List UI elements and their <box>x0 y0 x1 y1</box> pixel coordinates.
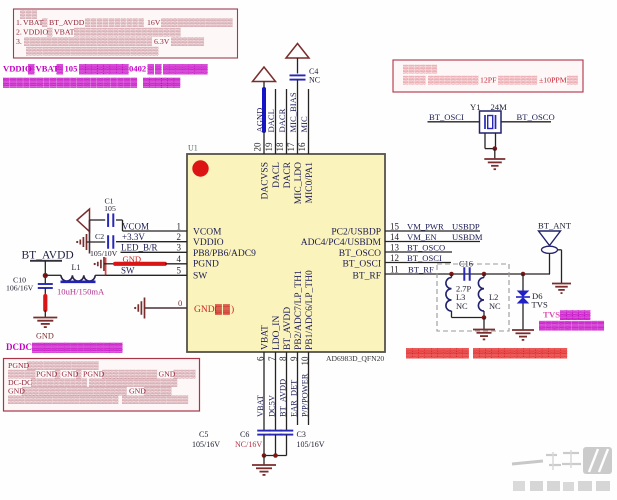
svg-text:14: 14 <box>390 232 400 242</box>
pin label VM_PWR <box>407 221 444 231</box>
svg-text:PB2/ADC7/LP_TH1: PB2/ADC7/LP_TH1 <box>294 270 304 350</box>
red highlight vertical at ground bar <box>105 258 107 276</box>
svg-text:TVS: TVS <box>543 310 560 320</box>
pin number 20 <box>253 142 263 152</box>
wires capacitors down to junction <box>264 435 287 456</box>
svg-text:C16: C16 <box>459 260 473 269</box>
svg-text:105: 105 <box>65 64 78 74</box>
ground below C10 <box>33 318 57 328</box>
svg-text:C3: C3 <box>297 430 306 439</box>
wire pin 3 LED_B/R <box>121 251 188 253</box>
svg-text:): ) <box>231 304 234 315</box>
svg-text:BT_AVDD: BT_AVDD <box>283 307 293 350</box>
svg-text:2.: 2. <box>16 28 22 37</box>
net label BT_RF <box>408 264 434 274</box>
wire antenna stub to ground <box>558 250 562 283</box>
IC U1 AD6983D_QFN20 body <box>187 144 385 353</box>
svg-text:16: 16 <box>297 142 307 152</box>
svg-text:BT_OSCI: BT_OSCI <box>407 253 442 263</box>
net label BT_OSCI <box>429 112 464 122</box>
svg-text:DCDC: DCDC <box>6 342 32 352</box>
svg-text:MIC_BIAS: MIC_BIAS <box>288 92 298 132</box>
substrate pad label GND(chenDi) <box>194 304 234 315</box>
net label GND (red) <box>123 254 142 264</box>
svg-text:AD6983D_QFN20: AD6983D_QFN20 <box>326 354 384 363</box>
svg-text:0: 0 <box>178 298 182 308</box>
svg-text:▓▓▓▓▓▓▓▓▓▓▓▓▓▓▓: ▓▓▓▓▓▓▓▓▓▓▓▓▓▓▓ <box>473 348 568 359</box>
svg-text:3: 3 <box>177 243 182 253</box>
svg-text:105/10V: 105/10V <box>90 249 118 258</box>
pin number 13 <box>390 242 400 252</box>
wire pin 5 SW <box>106 274 187 276</box>
PGND routing requirement box <box>4 359 200 412</box>
svg-text:8: 8 <box>278 356 288 361</box>
capacitor C5 105/16V <box>257 431 271 435</box>
svg-text:NC: NC <box>309 76 320 85</box>
svg-text:BT_OSCO: BT_OSCO <box>339 249 381 259</box>
svg-text:DACR: DACR <box>277 108 287 132</box>
IC pin name DACR <box>283 161 293 188</box>
wire BT_OSCI to crystal <box>428 121 480 123</box>
label C16 <box>459 260 473 269</box>
label C10 106/16V <box>6 276 34 293</box>
svg-text:C6: C6 <box>240 430 249 439</box>
pin number 1 <box>177 222 182 232</box>
net label P/P/POWER <box>301 373 310 417</box>
net label USBDP <box>452 221 480 231</box>
wire pin 9 stub EAR_DET <box>297 352 299 425</box>
inductor L3 (NC) <box>446 274 452 318</box>
svg-text:13: 13 <box>390 242 400 252</box>
wire pin 0 substrate ground <box>145 307 187 309</box>
wire pin 14 VM_EN <box>385 241 480 243</box>
svg-text:MIC: MIC <box>299 116 309 133</box>
svg-text:C5: C5 <box>199 430 208 439</box>
IC pin name VDDIO <box>193 238 224 248</box>
svg-text:L3: L3 <box>456 293 465 302</box>
wire pin 15 VM_PWR <box>385 230 480 232</box>
svg-text:BT_OSCI: BT_OSCI <box>342 260 381 270</box>
svg-text:L1: L1 <box>72 263 81 272</box>
svg-text:ADC4/PC4/USBDM: ADC4/PC4/USBDM <box>301 238 382 248</box>
svg-text:11: 11 <box>390 264 399 274</box>
junction node C5 <box>262 453 267 458</box>
net label DACR <box>277 108 287 132</box>
wire pin 8 down to capacitor <box>286 352 288 431</box>
value label 105/10V <box>90 249 118 258</box>
label L2 NC <box>489 293 501 311</box>
IC pin name ADC4/PC4/USBDM <box>301 238 382 248</box>
svg-text:▒: ▒ <box>42 18 48 27</box>
svg-text:105/16V: 105/16V <box>192 440 220 449</box>
svg-text:USBDP: USBDP <box>452 221 480 231</box>
pin number 15 <box>390 221 400 231</box>
svg-text:9: 9 <box>289 356 299 361</box>
label C1 105 <box>104 197 116 214</box>
rotated ground for PGND pin 4 <box>94 257 104 271</box>
ground below decoupling caps <box>252 465 276 475</box>
svg-text:C2: C2 <box>95 232 104 241</box>
svg-text:▓▓▓▓▓▓: ▓▓▓▓▓▓ <box>143 77 181 88</box>
svg-text:VCOM: VCOM <box>122 222 149 232</box>
wire arrow to C1 <box>90 219 106 221</box>
wire to D6 <box>522 274 524 291</box>
svg-text:106/16V: 106/16V <box>6 284 34 293</box>
net label BT_OSCO <box>407 242 445 252</box>
pin number 10 <box>300 356 310 366</box>
capacitor C1 105 <box>108 213 113 227</box>
wire ground to GND highlight <box>104 263 114 265</box>
antenna BT_ANT symbol <box>539 231 561 253</box>
net label MIC <box>299 116 309 133</box>
label Y1 24M <box>470 102 507 112</box>
red note: antenna matching params <box>406 348 568 359</box>
wire pin 10 stub P/P/POWER <box>308 352 310 425</box>
svg-text:VBAT: VBAT <box>54 28 75 37</box>
wire pin 18 DACR <box>286 89 288 154</box>
svg-text:DACR: DACR <box>283 161 293 188</box>
net label AGND <box>255 108 265 133</box>
IC pin name MIC_LDO <box>294 162 304 204</box>
wire pin20 AGND into IC <box>263 131 265 154</box>
svg-text:NC/16V: NC/16V <box>235 440 262 449</box>
TVS diode D6 (bidirectional) <box>516 291 530 304</box>
svg-text:▒▒▒▒: ▒▒▒▒ <box>403 76 426 85</box>
IC pin name VBAT <box>261 325 271 350</box>
thick red highlighted GND wire pin 4 <box>115 262 165 266</box>
value 2.7P <box>456 285 471 294</box>
IC part number AD6983D_QFN20 <box>326 354 384 363</box>
wire arrow to C4 <box>297 58 299 74</box>
svg-text:BT_OSCO: BT_OSCO <box>517 112 555 122</box>
IC pin name SW <box>193 272 207 282</box>
svg-text:▒▒: ▒▒ <box>567 76 579 85</box>
crystal Y1 box <box>480 111 502 133</box>
svg-text:20: 20 <box>253 142 263 152</box>
pin 17 power arrow MIC_BIAS <box>286 44 309 59</box>
svg-text:▓: ▓ <box>57 64 64 75</box>
ground below matching network <box>473 330 495 340</box>
net label BT_OSCO <box>517 112 555 122</box>
wire pin20 to arrow <box>263 82 265 90</box>
svg-text:12PF: 12PF <box>480 76 497 85</box>
pin number 4 <box>177 254 182 264</box>
net label DC5V <box>268 395 277 417</box>
svg-text:▒▒▒▒▒▒▒▒▒: ▒▒▒▒▒▒▒▒▒ <box>428 76 479 85</box>
net label USBDM <box>452 232 483 242</box>
svg-text:GND: GND <box>123 254 142 264</box>
svg-text:▓▓▓▓▓▓▓▓▓▓▓▓▓▓▓▓▓▓▓▓: ▓▓▓▓▓▓▓▓▓▓▓▓▓▓▓▓▓▓▓▓ <box>3 77 138 88</box>
label C3 105/16V <box>297 430 325 449</box>
wire C2 to pin 2 <box>116 241 187 243</box>
capacitor C16 2.7P (series) <box>464 267 469 281</box>
wire C4 to pin 17 <box>297 80 299 154</box>
svg-text:4: 4 <box>177 254 182 264</box>
svg-text:VBAT: VBAT <box>36 64 60 74</box>
junction node L3 tap <box>449 272 454 277</box>
net label BT_AVDD (large) <box>22 250 74 262</box>
svg-text:105/16V: 105/16V <box>297 440 325 449</box>
svg-text:VDDIO: VDDIO <box>193 238 224 248</box>
matching network dashed outline <box>437 264 509 331</box>
svg-text:LED_B/R: LED_B/R <box>121 243 158 253</box>
rotated ground for substrate pin 0 <box>134 298 144 319</box>
IC pin name PC2/USBDP <box>331 228 381 238</box>
pin number 16 <box>297 142 307 152</box>
svg-text:10uH/150mA: 10uH/150mA <box>57 287 105 297</box>
pin number 18 <box>275 142 285 152</box>
svg-text:▒▒▒▒▒▒: ▒▒▒▒▒▒ <box>403 65 438 74</box>
capacitor C3 105/16V <box>280 431 294 435</box>
label GND <box>36 332 54 341</box>
IC pin name PGND <box>193 260 219 270</box>
label C6 NC/16V (red) <box>235 430 262 449</box>
IC pin name DACVSS <box>261 162 271 200</box>
svg-text:▒▒▒▒▒▒▒▒▒▒▒▒▒: ▒▒▒▒▒▒▒▒▒▒▒▒▒ <box>161 18 233 27</box>
wire to ground <box>44 310 46 317</box>
label BT_ANT <box>538 221 572 231</box>
svg-text:PC2/USBDP: PC2/USBDP <box>331 228 381 238</box>
pin 1 marker dot <box>192 160 208 176</box>
svg-text:6: 6 <box>255 356 265 361</box>
label C5 105/16V <box>192 430 220 449</box>
IC pin name LDO_IN <box>272 316 282 350</box>
svg-text:▓▓: ▓▓ <box>215 304 231 315</box>
svg-text:VBAT: VBAT <box>256 395 265 417</box>
svg-text:▓: ▓ <box>28 64 35 75</box>
wire pin 13 BT_OSCO <box>385 251 452 253</box>
IC pin name VCOM <box>193 228 222 238</box>
pin number 0 <box>178 298 182 308</box>
wire pin 7 down to capacitor <box>275 352 277 431</box>
svg-text:2: 2 <box>177 232 182 242</box>
IC pin name BT_RF <box>352 272 381 282</box>
wire BT_AVDD down to junction <box>44 261 46 284</box>
svg-text:▒▒▒▒▒▒▒▒▒▒: ▒▒▒▒▒▒▒▒▒▒ <box>85 18 144 27</box>
wire pin 12 BT_OSCI <box>385 262 451 264</box>
svg-text:DACL: DACL <box>266 109 276 132</box>
label C4 NC <box>309 67 320 85</box>
IC pin name PB8/PB6/ADC9 <box>193 249 256 259</box>
junction node crystal ground <box>493 146 498 151</box>
svg-text:SW: SW <box>121 266 135 276</box>
wire pin 6 down to capacitor <box>263 352 265 431</box>
svg-text:▒▒▒▒▒▒▒▒▒▒▒▒▒▒▒▒▒▒▒▒▒▒▒▒: ▒▒▒▒▒▒▒▒▒▒▒▒▒▒▒▒▒▒▒▒▒▒▒▒ <box>26 47 159 56</box>
svg-text:VBAT: VBAT <box>261 325 271 350</box>
label L1 <box>72 263 81 272</box>
svg-text:16V: 16V <box>147 18 161 27</box>
capacitor C6 NC/16V <box>269 431 283 435</box>
net label BT_OSCI <box>407 253 442 263</box>
wire junction to L1 <box>45 274 61 276</box>
IC pin name MIC0/PA1 <box>305 162 315 204</box>
pin number 12 <box>390 253 399 263</box>
pin number 14 <box>390 232 400 242</box>
svg-text:5: 5 <box>177 266 182 276</box>
junction node L2 tap <box>482 272 487 277</box>
svg-text:6.3V: 6.3V <box>154 37 170 46</box>
svg-text:AGND: AGND <box>255 108 265 133</box>
svg-text:▒▒▒▒▒▒: ▒▒▒▒▒▒ <box>171 37 205 46</box>
net label BT_AVDD <box>279 379 288 417</box>
wire down to ground <box>483 318 485 330</box>
pin number 19 <box>264 142 274 152</box>
svg-text:PB8/PB6/ADC9: PB8/PB6/ADC9 <box>193 249 256 259</box>
wire to crystal ground <box>494 149 496 159</box>
crystal selection note box <box>393 60 583 92</box>
junction node D6 tap <box>521 272 526 277</box>
net label EAR_DET <box>290 380 299 417</box>
svg-text:EAR_DET: EAR_DET <box>290 380 299 417</box>
svg-text:VCOM: VCOM <box>193 228 222 238</box>
svg-text:BT_OSCO: BT_OSCO <box>407 242 445 252</box>
pin number 17 <box>286 142 296 152</box>
junction wire below capacitors <box>264 455 287 457</box>
svg-text:18: 18 <box>275 142 285 152</box>
net label VCOM <box>122 222 149 232</box>
svg-text:L2: L2 <box>489 293 498 302</box>
IC pin name BT_OSCI <box>342 260 381 270</box>
capacitor C4 (NC) <box>290 75 306 79</box>
pin number 6 <box>255 356 265 361</box>
capacitor C10 106/16V <box>38 284 53 288</box>
svg-text:19: 19 <box>264 142 274 152</box>
IC pin name BT_OSCO <box>339 249 381 259</box>
wire D6 to ground <box>522 304 524 331</box>
pin number 5 <box>177 266 182 276</box>
label C2 <box>95 232 104 241</box>
net label VBAT <box>256 395 265 417</box>
svg-text:▓▓▓▓▓▓▓▓: ▓▓▓▓▓▓▓▓ <box>79 64 129 75</box>
svg-text:▓▓: ▓▓ <box>148 64 163 75</box>
svg-text:▒▒▒▒▒▒▒▒▒▒▒▒▒▒▒▒▒▒▒▒▒▒▒: ▒▒▒▒▒▒▒▒▒▒▒▒▒▒▒▒▒▒▒▒▒▒▒ <box>24 37 153 46</box>
pin number 9 <box>289 356 299 361</box>
svg-text:DACVSS: DACVSS <box>261 162 271 200</box>
svg-text:DACL: DACL <box>272 162 282 188</box>
svg-text:▒: ▒ <box>47 28 53 37</box>
junction node L2 bottom <box>482 315 487 320</box>
svg-text:DC5V: DC5V <box>268 395 277 417</box>
wire antenna to BT_RF rail <box>549 253 552 274</box>
svg-text:PB1/ADC6/LP_TH0: PB1/ADC6/LP_TH0 <box>305 270 315 350</box>
svg-text:BT_RF: BT_RF <box>408 264 434 274</box>
capacitor C2 105/10V <box>108 235 113 249</box>
svg-text:BT_AVDD: BT_AVDD <box>22 250 74 262</box>
AGND blue highlighted wire segment <box>262 89 266 131</box>
svg-text:▓▓▓▓▓▓▓: ▓▓▓▓▓▓▓ <box>163 64 208 75</box>
magenta note: VDDIO/VBAT 0402 filter caps <box>3 64 208 89</box>
svg-text:BT_OSCI: BT_OSCI <box>429 112 464 122</box>
svg-text:17: 17 <box>286 142 296 152</box>
svg-text:▓▓▓▓▓: ▓▓▓▓▓ <box>560 310 591 321</box>
ground below antenna <box>552 284 571 294</box>
junction node BT_AVDD/L1/C10 <box>43 273 48 278</box>
ground below crystal <box>484 159 505 169</box>
net label MIC_BIAS <box>288 92 298 132</box>
inductor L1 core bar (blue) <box>61 280 96 283</box>
svg-text:P/P/POWER: P/P/POWER <box>301 373 310 417</box>
svg-text:USBDM: USBDM <box>452 232 483 242</box>
svg-text:▓▓▓▓▓▓▓▓▓▓▓▓▓▓: ▓▓▓▓▓▓▓▓▓▓▓▓▓▓ <box>32 342 123 353</box>
wire crystal to BT_OSCO <box>501 121 551 123</box>
wire L3 bottom to L2 bottom <box>452 317 485 319</box>
wire into pin 1 VCOM <box>123 230 188 232</box>
net label +3.3V <box>122 232 145 242</box>
wire pin 11 BT_RF rail <box>385 273 550 275</box>
pin number 11 <box>390 264 399 274</box>
wire ground to C2 <box>87 241 106 243</box>
svg-text:12: 12 <box>390 253 399 263</box>
IC pin name DACL <box>272 162 282 188</box>
svg-text:▒▒▒▒▒▒▒▒▒▒▒▒▒▒▒▒▒▒▒▒: ▒▒▒▒▒▒▒▒▒▒▒▒▒▒▒▒▒▒▒▒ <box>8 395 119 404</box>
svg-text:VBAT: VBAT <box>23 18 44 27</box>
svg-text:0402: 0402 <box>129 64 146 74</box>
svg-text:NC: NC <box>489 302 501 311</box>
net label LED_B/R <box>121 243 158 253</box>
svg-text:BT_RF: BT_RF <box>352 272 381 282</box>
net label SW <box>121 266 135 276</box>
wire pin 16 MIC <box>308 89 310 154</box>
watermark (faint) <box>512 447 612 491</box>
svg-text:BT_ANT: BT_ANT <box>538 221 572 231</box>
red highlighted segment below C10 <box>43 296 47 310</box>
svg-text:MIC0/PA1: MIC0/PA1 <box>305 162 315 204</box>
magenta note: DCDC inductor placement <box>6 342 123 353</box>
value label 10uH/150mA (magenta) <box>57 287 105 297</box>
net label underline BT_AVDD <box>30 260 62 262</box>
svg-text:1: 1 <box>177 222 182 232</box>
svg-text:▓▓▓▓▓▓▓▓▓▓: ▓▓▓▓▓▓▓▓▓▓ <box>539 320 605 331</box>
svg-text:▒▒▒▒▒▒▒: ▒▒▒▒▒▒▒ <box>498 76 538 85</box>
pin number 3 <box>177 243 182 253</box>
notes box (capacitor requirements) <box>14 9 238 58</box>
svg-text:U1: U1 <box>188 144 198 153</box>
svg-text:GND: GND <box>36 332 54 341</box>
IC pin name BT_AVDD <box>283 307 293 350</box>
pin number 7 <box>267 356 277 361</box>
svg-text:7: 7 <box>267 356 277 361</box>
wire C10 down <box>44 288 46 296</box>
inductor L2 (NC) <box>478 274 484 318</box>
svg-text:105: 105 <box>104 204 116 213</box>
svg-text:PGND: PGND <box>193 260 219 270</box>
crystal case ground wires <box>485 133 496 149</box>
wire L1 to SW elbow <box>95 274 105 276</box>
net label DACL <box>266 109 276 132</box>
svg-text:+3.3V: +3.3V <box>122 232 145 242</box>
svg-text:MIC_LDO: MIC_LDO <box>294 162 304 204</box>
rotated ground for C2 <box>76 234 86 250</box>
pin 20 power arrow AGND <box>253 67 276 82</box>
svg-text:NC: NC <box>456 302 468 311</box>
svg-text:▓▓▓▓▓▓▓▓▓▓: ▓▓▓▓▓▓▓▓▓▓ <box>406 348 469 359</box>
svg-text:3.: 3. <box>16 37 22 46</box>
wire C1 to pin 1 elbow <box>116 220 123 231</box>
wire to bottom ground <box>263 456 265 465</box>
svg-text:15: 15 <box>390 221 400 231</box>
svg-text:VDDIO: VDDIO <box>23 28 48 37</box>
svg-text:1.: 1. <box>16 18 22 27</box>
svg-text:10: 10 <box>300 356 310 366</box>
svg-text:VM_EN: VM_EN <box>407 232 437 242</box>
pin label VM_EN <box>407 232 437 242</box>
junction node C6 <box>273 453 278 458</box>
pin number 8 <box>278 356 288 361</box>
svg-text:TVS: TVS <box>532 300 548 310</box>
vertical stub from arrow down to C2 row <box>89 220 91 254</box>
svg-text:BT_AVDD: BT_AVDD <box>279 379 288 417</box>
svg-text:±10PPM: ±10PPM <box>539 76 567 85</box>
